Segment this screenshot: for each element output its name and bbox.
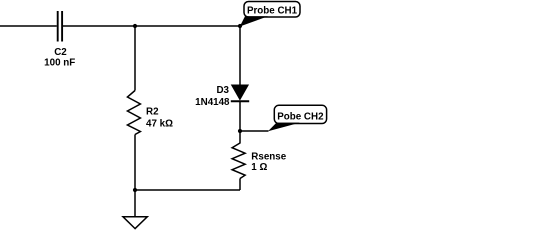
wire — [63, 25, 240, 27]
node junction top-left — [133, 24, 137, 28]
wire — [134, 135, 136, 191]
svg-text:D3: D3 — [216, 85, 229, 96]
svg-text:1 Ω: 1 Ω — [251, 162, 267, 173]
node junction top-right — [238, 24, 242, 28]
label 100 nF — [44, 57, 75, 68]
probe callout CH1 — [240, 2, 300, 27]
svg-text:R2: R2 — [146, 107, 159, 118]
wire — [134, 190, 136, 217]
resistor Rsense — [232, 143, 245, 179]
probe callout CH2 — [268, 105, 327, 131]
svg-text:100 nF: 100 nF — [44, 57, 75, 68]
wire — [239, 131, 241, 144]
label D3 — [216, 85, 229, 96]
wire — [135, 189, 240, 191]
wire — [134, 26, 136, 91]
svg-text:Pobe CH2: Pobe CH2 — [277, 112, 324, 123]
ground — [123, 217, 147, 229]
resistor R2 — [127, 91, 140, 135]
node junction bottom — [133, 188, 137, 192]
svg-text:47 kΩ: 47 kΩ — [146, 119, 173, 130]
svg-text:Probe CH1: Probe CH1 — [247, 5, 298, 16]
wire — [240, 130, 269, 132]
wire — [239, 26, 241, 86]
diode D3 — [231, 85, 249, 101]
label 47 kOhm — [146, 119, 173, 130]
node junction CH2 — [238, 129, 242, 133]
capacitor C2 — [58, 11, 62, 42]
label 1 Ohm — [251, 162, 267, 173]
label C2 — [54, 47, 67, 58]
label 1N4148 — [195, 97, 230, 108]
label Rsense — [251, 152, 286, 163]
label R2 — [146, 107, 159, 118]
svg-text:C2: C2 — [54, 47, 67, 58]
wire — [239, 179, 241, 191]
wire — [239, 102, 241, 131]
svg-text:1N4148: 1N4148 — [195, 97, 230, 108]
wire — [0, 25, 57, 27]
svg-text:Rsense: Rsense — [251, 152, 286, 163]
